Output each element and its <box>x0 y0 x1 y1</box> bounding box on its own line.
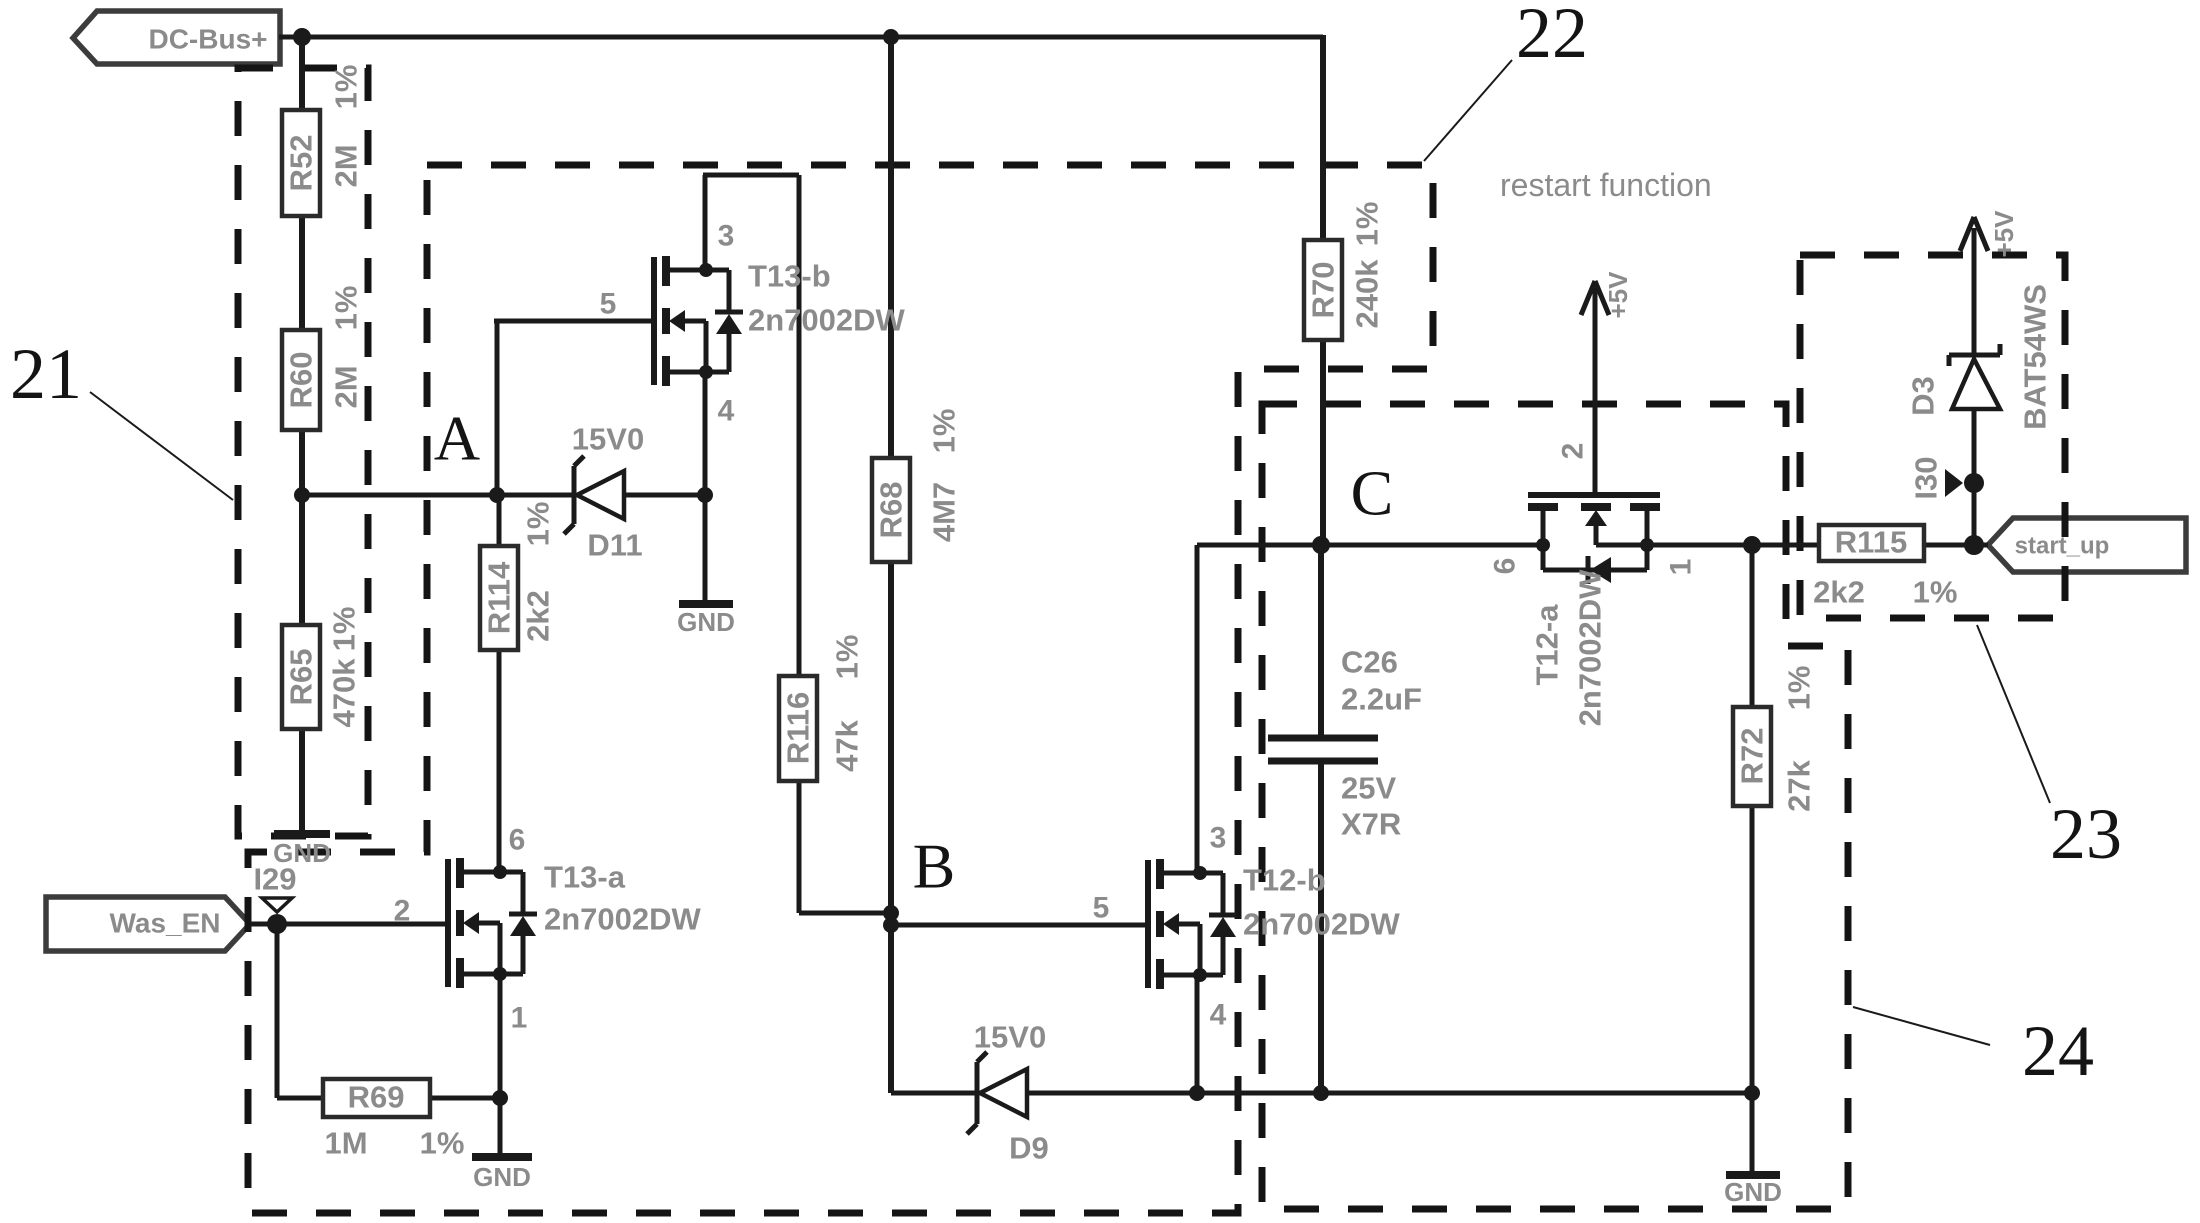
svg-text:R65: R65 <box>284 649 319 706</box>
node B junction upper <box>883 905 899 921</box>
svg-text:R52: R52 <box>284 135 319 192</box>
wire R69 to source node <box>430 1096 500 1101</box>
junction DC-Bus+ <box>293 28 311 46</box>
svg-text:R115: R115 <box>1835 525 1907 560</box>
svg-text:4: 4 <box>718 395 735 428</box>
svg-text:1%: 1% <box>329 65 364 110</box>
label 24 with leader <box>1853 1007 2094 1091</box>
net marker I30 <box>1945 469 1963 497</box>
svg-text:2.2uF: 2.2uF <box>1341 682 1422 717</box>
svg-text:47k: 47k <box>830 719 865 771</box>
wire R114 to T13-a drain <box>497 650 502 872</box>
wire T12-b drain to node C <box>1195 545 1200 873</box>
junction R72 bottom <box>1744 1085 1760 1101</box>
zener diode D11 <box>564 456 624 534</box>
svg-text:6: 6 <box>509 824 526 857</box>
junction Was_EN <box>267 914 287 934</box>
resistor R65 <box>282 625 320 729</box>
svg-text:T13-b: T13-b <box>748 259 831 294</box>
wire top bus <box>279 35 1323 40</box>
svg-text:2n7002DW: 2n7002DW <box>1573 569 1608 727</box>
svg-text:R68: R68 <box>874 482 909 539</box>
wire T13-b source to node <box>703 373 708 495</box>
svg-text:3: 3 <box>718 220 735 253</box>
svg-text:D9: D9 <box>1009 1131 1049 1166</box>
wire node C to T12-a <box>1321 543 1543 548</box>
svg-text:1%: 1% <box>521 502 556 547</box>
svg-text:D11: D11 <box>587 528 642 563</box>
wire node A to R114 <box>497 495 502 546</box>
svg-text:5: 5 <box>1093 892 1110 925</box>
svg-text:2k2: 2k2 <box>1813 575 1865 610</box>
wire R72 top <box>1750 545 1755 707</box>
svg-text:1%: 1% <box>830 635 865 680</box>
svg-text:T12-a: T12-a <box>1530 604 1565 686</box>
svg-text:6: 6 <box>1489 558 1522 575</box>
junction start_up <box>1964 535 1984 555</box>
svg-text:5: 5 <box>600 288 617 321</box>
svg-text:23: 23 <box>2050 794 2122 874</box>
wire R68 to node B down to D9 <box>888 562 894 1093</box>
svg-text:B: B <box>913 831 956 902</box>
svg-text:BAT54WS: BAT54WS <box>2018 284 2053 430</box>
zener diode D9 <box>967 1052 1027 1134</box>
dashed box 24 <box>1262 404 1848 1209</box>
svg-text:24: 24 <box>2022 1011 2094 1091</box>
svg-text:1%: 1% <box>1350 202 1385 247</box>
schottky diode D3 <box>1949 344 2000 409</box>
svg-text:GND: GND <box>273 838 331 868</box>
svg-text:25V: 25V <box>1341 771 1396 806</box>
svg-text:C26: C26 <box>1341 645 1398 680</box>
wire bus to R68 <box>888 37 894 458</box>
svg-text:R72: R72 <box>1735 728 1770 785</box>
wire R65-GND <box>299 729 305 834</box>
junction T12-b source / bottom wire <box>1189 1085 1205 1101</box>
transistor T13-a <box>448 858 537 988</box>
wire T12-a pin1 to R115 <box>1647 543 1819 548</box>
svg-text:I30: I30 <box>1909 456 1944 499</box>
svg-text:Was_EN: Was_EN <box>109 908 220 939</box>
wire node A to T13-b gate <box>495 321 500 495</box>
ground below R72 <box>1724 1175 1782 1207</box>
wire node A horizontal <box>302 493 574 498</box>
svg-text:D3: D3 <box>1906 376 1941 416</box>
junction R69 / T13-a source <box>492 1090 508 1106</box>
svg-text:240k: 240k <box>1350 259 1385 329</box>
wire T13-a source to GND <box>498 974 503 1157</box>
wire C26 bottom <box>1318 761 1324 1093</box>
wire T13-b node to GND <box>703 495 708 604</box>
svg-text:1M: 1M <box>324 1126 367 1161</box>
wire bus corner to R70 <box>1320 35 1326 240</box>
resistor R115 <box>1819 525 1924 562</box>
svg-text:15V0: 15V0 <box>974 1020 1046 1055</box>
connector start_up <box>1988 518 2186 572</box>
wire R72 bottom to GND <box>1750 806 1755 1175</box>
svg-text:T13-a: T13-a <box>544 860 626 895</box>
wire R60-R65 <box>299 430 305 625</box>
wire +5V to T12-a gate <box>1593 288 1598 495</box>
transistor T13-b <box>654 256 743 386</box>
svg-text:R116: R116 <box>781 692 816 764</box>
svg-text:2k2: 2k2 <box>521 590 556 642</box>
svg-text:27k: 27k <box>1782 759 1817 811</box>
label 22 with leader <box>1424 0 1588 161</box>
resistor R52 <box>282 110 320 216</box>
svg-text:1%: 1% <box>420 1126 465 1161</box>
svg-text:2: 2 <box>1557 443 1590 460</box>
svg-text:GND: GND <box>1724 1177 1782 1207</box>
ground below T13-b <box>677 604 735 637</box>
wire Was_EN to T13-a gate <box>250 922 448 927</box>
ground below T13-a <box>472 1157 532 1192</box>
resistor R116 <box>779 676 817 781</box>
svg-text:15V0: 15V0 <box>572 422 644 457</box>
svg-text:2n7002DW: 2n7002DW <box>544 902 702 937</box>
junction R60-R65 tap <box>294 487 310 503</box>
wire T13-b drain up-over-down to R116 <box>703 175 708 270</box>
svg-text:2: 2 <box>394 895 411 928</box>
svg-text:1: 1 <box>1665 559 1698 576</box>
node A junction <box>489 487 505 503</box>
dashed box 22 <box>248 165 1433 1213</box>
wire T12-b source down <box>1195 975 1200 1093</box>
junction D11 / T13-b source <box>697 487 713 503</box>
svg-text:R69: R69 <box>348 1080 405 1115</box>
svg-text:1%: 1% <box>1913 575 1958 610</box>
connector Was_EN <box>46 897 250 951</box>
svg-text:1%: 1% <box>1782 666 1817 711</box>
label 21 with leader <box>10 334 233 500</box>
resistor R72 <box>1733 707 1771 806</box>
svg-text:GND: GND <box>473 1162 531 1192</box>
junction I30 <box>1964 473 1984 493</box>
svg-text:21: 21 <box>10 334 82 414</box>
svg-text:GND: GND <box>677 607 735 637</box>
connector DC-Bus+ <box>73 11 280 64</box>
svg-text:4M7: 4M7 <box>927 482 962 542</box>
wire node B to T12-b gate <box>891 923 1148 928</box>
svg-text:470k: 470k <box>327 658 362 728</box>
svg-text:22: 22 <box>1516 0 1588 73</box>
svg-text:2n7002DW: 2n7002DW <box>748 303 906 338</box>
junction R72 top <box>1743 536 1761 554</box>
wire R116 bottom to node B <box>797 781 802 913</box>
wire +5V to D3 <box>1972 228 1977 355</box>
svg-text:X7R: X7R <box>1341 807 1401 842</box>
transistor T12-a <box>1528 495 1660 584</box>
ground below R65 <box>273 834 331 868</box>
net marker I29 <box>262 898 292 912</box>
resistor R69 <box>323 1079 430 1117</box>
svg-text:1%: 1% <box>927 409 962 454</box>
svg-text:R60: R60 <box>284 352 319 409</box>
power +5V at T12-a <box>1581 281 1609 315</box>
node B junction lower <box>883 917 899 933</box>
wire D3 anode down <box>1972 409 1977 545</box>
svg-text:R114: R114 <box>482 561 517 634</box>
svg-text:3: 3 <box>1210 822 1227 855</box>
svg-text:+5V: +5V <box>1603 271 1633 319</box>
svg-text:DC-Bus+: DC-Bus+ <box>148 24 267 55</box>
svg-text:2M: 2M <box>329 144 364 187</box>
svg-text:R70: R70 <box>1306 262 1341 319</box>
label 23 with leader <box>1977 625 2122 874</box>
wire R52-R60 <box>299 216 305 330</box>
svg-text:restart function: restart function <box>1500 167 1712 203</box>
resistor R70 <box>1304 240 1342 340</box>
resistor R114 <box>480 546 518 650</box>
dashed box 21 voltage divider <box>238 68 368 836</box>
junction C26 / bottom wire <box>1313 1085 1329 1101</box>
wire R70 to node C <box>1320 340 1326 545</box>
wire R52 top <box>299 35 305 110</box>
svg-text:2M: 2M <box>329 365 364 408</box>
wire D11 cathode side <box>624 493 705 498</box>
dashed box 23 <box>1800 255 2065 618</box>
wire Was_EN down to R69 <box>275 924 280 1098</box>
node C junction <box>1312 536 1330 554</box>
wire node C to C26 <box>1318 545 1324 738</box>
resistor R60 <box>282 330 320 430</box>
junction bus / R68 <box>883 29 899 45</box>
power +5V at D3 <box>1960 217 1988 251</box>
svg-text:4: 4 <box>1210 999 1227 1032</box>
svg-text:1: 1 <box>511 1002 528 1035</box>
capacitor C26 <box>1268 738 1378 761</box>
svg-text:1%: 1% <box>329 286 364 331</box>
svg-text:1%: 1% <box>327 607 362 652</box>
svg-text:T12-b: T12-b <box>1243 863 1326 898</box>
svg-text:2n7002DW: 2n7002DW <box>1243 907 1401 942</box>
wire R115 to start_up <box>1924 543 1988 548</box>
wire D9 to R72 bottom <box>1027 1091 1752 1096</box>
svg-text:A: A <box>434 403 480 474</box>
svg-text:+5V: +5V <box>1989 210 2019 258</box>
transistor T12-b <box>1148 859 1237 989</box>
resistor R68 <box>872 458 910 562</box>
svg-text:C: C <box>1351 458 1394 529</box>
